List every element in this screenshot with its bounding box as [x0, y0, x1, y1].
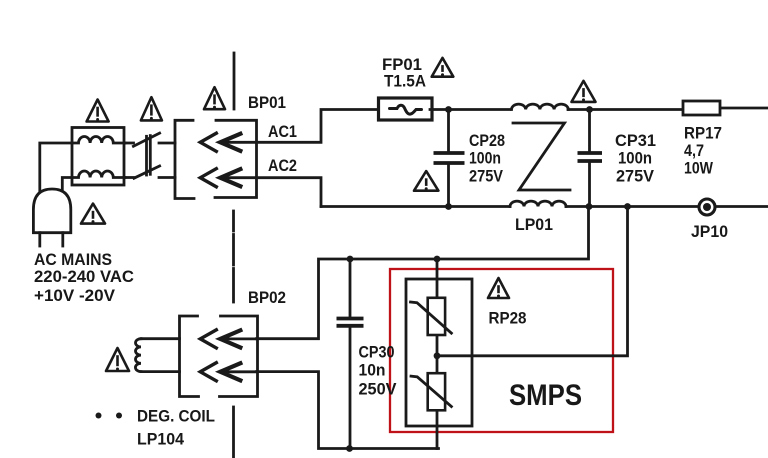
- svg-text:JP10: JP10: [691, 222, 728, 241]
- svg-text:CP31: CP31: [615, 131, 656, 150]
- svg-text:100n: 100n: [469, 149, 501, 168]
- svg-text:LP01: LP01: [515, 215, 553, 234]
- svg-text:10n: 10n: [359, 361, 386, 380]
- svg-text:RP28: RP28: [489, 309, 527, 328]
- svg-text:AC2: AC2: [268, 156, 297, 175]
- svg-text:+10V -20V: +10V -20V: [34, 286, 116, 305]
- svg-text:275V: 275V: [616, 167, 655, 186]
- svg-text:RP17: RP17: [684, 124, 722, 143]
- svg-text:BP01: BP01: [248, 93, 286, 112]
- svg-text:LP104: LP104: [137, 430, 185, 449]
- svg-text:SMPS: SMPS: [509, 379, 582, 412]
- svg-text:AC1: AC1: [268, 122, 297, 141]
- svg-text:DEG. COIL: DEG. COIL: [137, 407, 215, 426]
- svg-text:4,7: 4,7: [684, 141, 704, 160]
- svg-text:T1.5A: T1.5A: [384, 72, 426, 91]
- svg-text:CP28: CP28: [469, 131, 505, 150]
- svg-text:CP30: CP30: [359, 343, 395, 362]
- svg-text:10W: 10W: [684, 159, 714, 178]
- svg-text:100n: 100n: [618, 149, 652, 168]
- svg-text:BP02: BP02: [248, 288, 286, 307]
- svg-text:220-240 VAC: 220-240 VAC: [34, 267, 134, 286]
- svg-text:275V: 275V: [469, 167, 504, 186]
- svg-text:250V: 250V: [359, 380, 398, 399]
